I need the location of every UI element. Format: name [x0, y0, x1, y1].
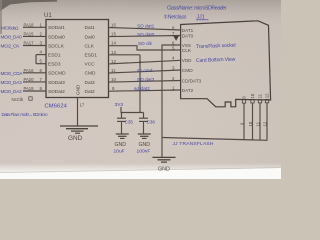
- svg-text:GND: GND: [158, 167, 170, 173]
- wire net SD clk: pin14 jog to J1 pin5: [109, 41, 181, 50]
- svg-text:MCI0_DA2: MCI0_DA2: [1, 89, 23, 94]
- svg-text:100nF: 100nF: [137, 148, 151, 154]
- svg-text:ESD3: ESD3: [48, 62, 61, 68]
- J1 pin 1 DAT2: [172, 86, 194, 94]
- right pin 10 Dat3 name and number: [85, 77, 117, 86]
- svg-text:CD/DAT3: CD/DAT3: [182, 79, 202, 84]
- svg-text:Dat0: Dat0: [85, 34, 95, 40]
- svg-text:SD dat1: SD dat1: [137, 23, 155, 29]
- svg-text:SD clk: SD clk: [138, 41, 152, 47]
- ground symbol under chip: [60, 126, 98, 142]
- svg-text:JJ TRANSFLASH: JJ TRANSFLASH: [173, 141, 214, 147]
- svg-text:13: 13: [111, 50, 116, 55]
- svg-text:Class/Name: microSDReader: Class/Name: microSDReader: [167, 6, 227, 12]
- wire net sd cmd: pin11 to J1 pin3: [109, 68, 181, 74]
- J1 bottom pin 12 tooth and wire: [263, 93, 270, 140]
- svg-text:SD dat0: SD dat0: [137, 32, 155, 38]
- svg-text:16: 16: [111, 23, 116, 28]
- svg-text:SDDat0: SDDat0: [48, 34, 65, 40]
- svg-text:DAT0: DAT0: [182, 34, 194, 39]
- right pin 12 VCC name and number: [85, 59, 117, 68]
- svg-text:MCI0_CDA: MCI0_CDA: [1, 71, 24, 76]
- svg-text:DAT2: DAT2: [182, 88, 194, 93]
- pin 5 ESD3 stub and tie to pin 4: [36, 55, 61, 68]
- J1 pin 6 VSS: [172, 41, 191, 49]
- svg-text:17: 17: [80, 103, 85, 108]
- ground symbol under C15: [114, 134, 129, 154]
- svg-text:C35: C35: [125, 120, 134, 125]
- svg-text:12: 12: [263, 121, 268, 126]
- right pin 16 Dat1 name and number: [85, 23, 117, 32]
- wire net sd dat2: pin9 to J1 pin1: [109, 86, 181, 92]
- ground symbol under C16: [137, 134, 151, 154]
- svg-text:U1: U1: [44, 13, 52, 19]
- svg-text:SDDat1: SDDat1: [48, 25, 65, 31]
- svg-text:Data Flow: mci0↔SDmicro: Data Flow: mci0↔SDmicro: [2, 112, 49, 117]
- svg-text:Dat1: Dat1: [85, 25, 95, 31]
- right pin 9 Dat2 name and number: [85, 86, 116, 95]
- svg-text:15: 15: [111, 32, 116, 37]
- ground rail wire: [162, 138, 268, 141]
- svg-text:DAT1: DAT1: [182, 28, 194, 33]
- svg-text:10uF: 10uF: [114, 148, 125, 154]
- pin 2 SDDat0: wire, net MCI0_DA0, ref PA15: [1, 31, 66, 40]
- svg-text:PA18: PA18: [24, 22, 35, 27]
- svg-text:10: 10: [248, 121, 253, 126]
- svg-text:GND: GND: [139, 142, 151, 148]
- pin 8 SDDat2: wire, net MCI0_DA2, ref PA19: [1, 86, 66, 95]
- svg-text:PA16: PA16: [24, 68, 35, 73]
- svg-text:GND: GND: [76, 84, 81, 95]
- svg-text:CLK: CLK: [85, 43, 95, 49]
- wire VSS to ground rail: [162, 45, 181, 157]
- ground symbol for VSS rail: [153, 157, 176, 172]
- svg-text:VSS: VSS: [182, 43, 191, 48]
- wire net SD dat1: pin16 to J1 pin8: [109, 23, 181, 30]
- svg-text:sd dat2: sd dat2: [134, 86, 150, 92]
- svg-text:ESD1: ESD1: [85, 53, 98, 59]
- wire 3V3 branch vertical with junction: [139, 55, 141, 113]
- right pin 14 CLK name and number: [85, 41, 117, 50]
- svg-text:MCI0da1: MCI0da1: [1, 25, 19, 30]
- svg-text:VCC: VCC: [85, 62, 96, 68]
- svg-text:NcClk: NcClk: [12, 97, 25, 102]
- pin 6 SDCMD: wire, net MCI0_CDA, ref PA16: [1, 68, 67, 77]
- svg-text:SDCMD: SDCMD: [48, 71, 66, 77]
- wire net SD dat3: pin10 to J1 pin2: [109, 77, 181, 83]
- annotation TransFlash socket / Card Bottom View: [196, 43, 237, 64]
- svg-text:Dat2: Dat2: [85, 89, 95, 95]
- right pin 15 Dat0 name and number: [85, 32, 117, 41]
- svg-text:sb cmd: sb cmd: [137, 68, 153, 74]
- svg-text:MCI0_DA0: MCI0_DA0: [1, 35, 23, 40]
- J1 pin 5 CLK: [172, 46, 192, 55]
- capacitor C15 10uF: [117, 113, 133, 135]
- svg-text:①Netclass: ①Netclass: [164, 15, 187, 21]
- pin 3 SDCLK: wire, net MCI2_CK, ref PA17: [1, 41, 65, 50]
- svg-text:10: 10: [111, 77, 116, 82]
- J1 pin 4 VDD: [172, 56, 192, 64]
- J1 pin 2 CD/DAT3: [172, 76, 202, 84]
- J1 bottom pin 11 tooth and wire: [256, 93, 263, 140]
- svg-text:12: 12: [265, 93, 270, 98]
- svg-text:11: 11: [256, 121, 261, 126]
- svg-text:3V3: 3V3: [115, 102, 124, 108]
- svg-text:SDDat2: SDDat2: [48, 89, 65, 95]
- svg-text:CLK: CLK: [182, 48, 192, 54]
- wire chip GND pin down: [78, 98, 85, 127]
- J1 pin 7 DAT0: [172, 31, 194, 39]
- right pin 11 CMD name and number: [85, 68, 117, 77]
- svg-text:CMD: CMD: [85, 71, 96, 77]
- J1 bottom pin 10 tooth and wire: [248, 93, 255, 140]
- chip GND pin rotated label: [76, 84, 81, 95]
- pin 1 SDDat1: wire, net MCI0_DA1, ref PA18: [1, 22, 65, 31]
- J1 pin 8 DAT1: [172, 26, 194, 34]
- svg-text:Dat3: Dat3: [85, 80, 95, 86]
- paper background: [0, 0, 281, 179]
- title Netclass JJ1: [164, 15, 209, 21]
- chip U1 (CM6624) body: [46, 20, 109, 98]
- svg-text:MCI2_CK: MCI2_CK: [1, 44, 21, 49]
- wire net SD dat0: pin15 to J1 pin7, junction marker: [109, 32, 181, 41]
- svg-text:PA19: PA19: [24, 86, 35, 91]
- svg-text:CMD: CMD: [182, 68, 193, 74]
- connector J1 TransFlash socket outline (card bottom view): [181, 21, 271, 107]
- svg-text:11: 11: [258, 93, 263, 98]
- svg-text:PA20: PA20: [24, 77, 35, 82]
- svg-text:SD dat3: SD dat3: [137, 77, 155, 83]
- right pin 13 ESD2 name, number, stub to VCC branch: [85, 50, 141, 59]
- svg-text:SDDat3: SDDat3: [48, 80, 65, 86]
- svg-text:ESD1: ESD1: [48, 53, 61, 59]
- pin 4 ESD1 stub: [36, 50, 61, 59]
- power rail 3V3 with label: [115, 102, 144, 113]
- svg-text:CM6624: CM6624: [45, 104, 68, 110]
- svg-text:GND: GND: [115, 142, 127, 148]
- J1 pin 3 CMD: [172, 66, 193, 75]
- svg-text:C36: C36: [147, 120, 156, 125]
- svg-text:10: 10: [250, 93, 255, 98]
- svg-text:14: 14: [111, 41, 116, 46]
- no-connect NcClk with NC box symbol: [12, 97, 33, 102]
- svg-text:PA17: PA17: [24, 41, 35, 46]
- wire VCC: pin12 to J1 pin4 VDD: [109, 60, 181, 64]
- pin 7 SDDat3: wire, net MCI0_DA3, ref PA20: [1, 77, 66, 86]
- svg-text:VDD: VDD: [182, 58, 192, 63]
- svg-text:MCI0_DA3: MCI0_DA3: [1, 80, 23, 85]
- svg-text:PA15: PA15: [24, 31, 35, 36]
- J1 bottom pin 9 tooth and wire: [240, 96, 247, 140]
- svg-text:GND: GND: [68, 135, 83, 142]
- svg-text:SDCLK: SDCLK: [48, 43, 65, 49]
- capacitor C16 100nF: [139, 113, 155, 135]
